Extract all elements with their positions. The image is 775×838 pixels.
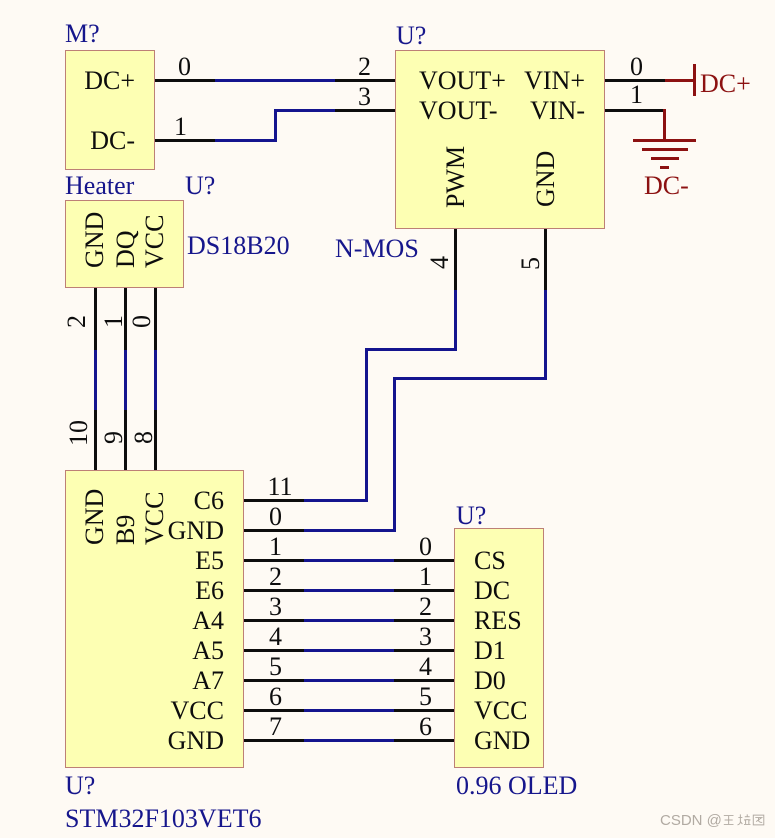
motor connector M1 box [65, 50, 155, 170]
pin number 0 rotated [127, 315, 155, 328]
pin number 5 [269, 652, 282, 680]
ground bar 2 [642, 148, 688, 151]
wire VCC to VCC [304, 709, 394, 712]
pin 10 stub of MCU [94, 410, 97, 470]
pin number 9 rotated [99, 431, 127, 444]
wire A7 to D0 [304, 679, 394, 682]
label U? designator [65, 771, 95, 799]
pin 4 PWM stub [454, 229, 457, 290]
pin number 0 [419, 532, 432, 560]
pin name A7 [192, 666, 224, 694]
power symbol DC+ lead [665, 79, 693, 82]
power net label DC+ [700, 69, 751, 97]
pin name RES [474, 606, 522, 634]
pin name A5 [192, 636, 224, 664]
pin 1 stub of OLED [394, 589, 454, 592]
pin 6 stub of MCU [244, 709, 304, 712]
pin 11 stub of MCU [244, 499, 304, 502]
wire C6 vertical riser [365, 348, 368, 502]
pin number 1 [419, 562, 432, 590]
pin name VIN- [530, 96, 585, 124]
temperature sensor DS18B20 U? box [65, 200, 184, 288]
pin name VCC [171, 696, 224, 724]
label M? designator [65, 19, 100, 47]
pin number 8 rotated [129, 431, 157, 444]
wire E6 to DC [304, 589, 394, 592]
pin 1 VIN- stub [605, 109, 665, 112]
pin number 7 [269, 712, 282, 740]
wire GND to GND pin vertical [544, 290, 547, 380]
pin 0 VIN+ stub [605, 79, 665, 82]
pin number 5 rotated [516, 257, 544, 270]
pin name GND [168, 726, 224, 754]
wire C6 upper horizontal [365, 348, 458, 351]
pin name VCC vertical [140, 214, 168, 267]
wire vertical jog [274, 109, 277, 142]
pin number 6 [269, 682, 282, 710]
pin 5 stub of OLED [394, 709, 454, 712]
pin name CS [474, 546, 506, 574]
pin 6 stub of OLED [394, 739, 454, 742]
pin name GND [474, 726, 530, 754]
wire GND sensor to MCU [94, 350, 97, 410]
pin name DQ vertical [111, 230, 139, 268]
power symbol DC+ bar [693, 64, 697, 96]
wire DQ sensor to MCU [124, 350, 127, 410]
label N-MOS comment [335, 234, 419, 262]
pin name VOUT- [419, 96, 497, 124]
pin 1 stub of DS18B20 [124, 288, 127, 350]
label STM32F103VET6 comment [65, 804, 261, 832]
wire C6 to PWM pin vertical [454, 290, 457, 351]
pin name GND [168, 516, 224, 544]
pin name A4 [192, 606, 224, 634]
pin 9 stub of MCU [124, 410, 127, 470]
pin 4 stub of OLED [394, 679, 454, 682]
pin name VCC vertical [140, 492, 168, 545]
label U? designator [396, 21, 426, 49]
pin number 6 [419, 712, 432, 740]
pin name VOUT+ [419, 66, 506, 94]
pin 4 stub of MCU [244, 649, 304, 652]
pin 5 GND stub [544, 229, 547, 290]
pin name D0 [474, 666, 506, 694]
pin number 2 [358, 52, 371, 80]
ground bar 4 [660, 166, 669, 169]
ground lead [663, 109, 666, 142]
pin name D1 [474, 636, 506, 664]
pin 0 stub of OLED [394, 559, 454, 562]
wire GND to GND horizontal [304, 529, 396, 532]
pin name PWM vertical [441, 146, 469, 208]
wire C6 to PWM horizontal [304, 499, 366, 502]
pin 1 stub of MCU [244, 559, 304, 562]
pin number 1 [630, 80, 643, 108]
pin number 1 [174, 112, 187, 140]
pin number 1 rotated [99, 315, 127, 328]
pin 7 stub of MCU [244, 739, 304, 742]
pin name DC+ [84, 66, 135, 94]
ground bar 3 [651, 157, 679, 160]
pin number 3 [269, 592, 282, 620]
pin number 0 [269, 502, 282, 530]
pin name GND vertical [80, 211, 108, 267]
wire A5 to D1 [304, 649, 394, 652]
wire VCC sensor to MCU [154, 350, 157, 410]
pin name GND vertical [80, 489, 108, 545]
pin number 2 [419, 592, 432, 620]
pin 3 stub of OLED [394, 649, 454, 652]
wire to U? pin3 [274, 109, 335, 112]
pin number 11 [268, 472, 293, 500]
OLED display U? box [454, 528, 544, 768]
pin number 2 rotated [62, 315, 90, 328]
pin 2 stub of MCU [244, 589, 304, 592]
wire M? pin1 horizontal [215, 139, 277, 142]
pin 5 stub of MCU [244, 679, 304, 682]
pin 0 stub of DS18B20 [154, 288, 157, 350]
pin 3 stub of MCU [244, 619, 304, 622]
label U? designator [185, 171, 215, 199]
label DS18B20 comment [187, 231, 290, 259]
wire M? pin0 to U? pin2 [215, 79, 335, 82]
pin number 1 [269, 532, 282, 560]
wire GND vertical riser [393, 377, 396, 532]
pin name DC [474, 576, 510, 604]
MCU STM32 U? box [65, 470, 244, 769]
pin number 0 [630, 52, 643, 80]
pin 2 stub of DS18B20 [94, 288, 97, 350]
pin 2 of U? [335, 79, 395, 82]
pin number 4 [419, 652, 432, 680]
watermark CSDN [660, 812, 722, 829]
label Heater comment [65, 171, 134, 199]
DC-DC converter U? box [395, 50, 605, 229]
pin 0 stub of MCU [244, 529, 304, 532]
pin number 2 [269, 562, 282, 590]
pin 0 of M? [155, 79, 215, 82]
pin name E6 [195, 576, 224, 604]
pin 3 of U? [335, 109, 395, 112]
pin number 5 [419, 682, 432, 710]
pin name VCC [474, 696, 527, 724]
pin number 4 [269, 622, 282, 650]
pin 1 of M? [155, 139, 215, 142]
pin number 3 [358, 82, 371, 110]
pin 2 stub of OLED [394, 619, 454, 622]
pin name C6 [194, 486, 224, 514]
watermark chinese characters [723, 813, 765, 827]
pin name E5 [195, 546, 224, 574]
ground bar 1 [633, 139, 696, 142]
power net label DC- [644, 171, 689, 199]
pin 8 stub of MCU [154, 410, 157, 470]
pin name DC- [90, 126, 135, 154]
pin number 3 [419, 622, 432, 650]
wire GND upper horizontal [393, 377, 547, 380]
pin name VIN+ [524, 66, 585, 94]
label U? designator [456, 501, 486, 529]
wire GND to GND [304, 739, 394, 742]
label 0.96 OLED comment [456, 771, 577, 799]
pin number 10 rotated [64, 420, 92, 446]
pin number 0 [178, 52, 191, 80]
pin name GND vertical [531, 151, 559, 207]
wire E5 to CS [304, 559, 394, 562]
pin name B9 vertical [111, 515, 139, 545]
wire A4 to RES [304, 619, 394, 622]
pin number 4 rotated [425, 256, 453, 269]
